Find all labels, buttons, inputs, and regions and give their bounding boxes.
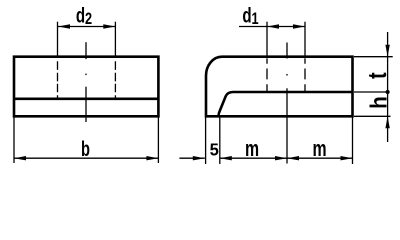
svg-text:d: d [76,3,85,27]
svg-text:h: h [365,96,391,109]
svg-text:2: 2 [85,9,92,28]
svg-text:b: b [81,137,90,160]
svg-text:d: d [242,3,251,27]
svg-text:m: m [312,138,326,162]
svg-text:t: t [362,72,391,79]
svg-text:1: 1 [251,9,258,28]
svg-text:5: 5 [210,140,219,159]
svg-text:m: m [245,138,259,162]
